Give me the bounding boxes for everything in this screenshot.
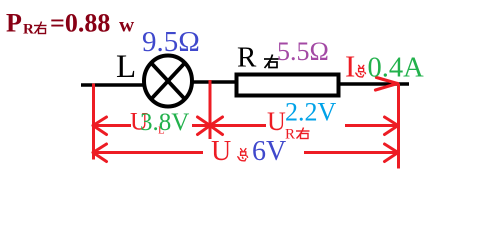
svg-text:R: R bbox=[237, 42, 257, 74]
row1 right arrowhead (points right at V3) bbox=[385, 117, 399, 135]
CJK 总 subscript of I label bbox=[356, 65, 366, 77]
row2 right arrowhead bbox=[385, 144, 399, 162]
CJK 右 subscript of U_R右 label bbox=[296, 128, 310, 139]
svg-text:P: P bbox=[6, 9, 22, 38]
svg-text:9.5Ω: 9.5Ω bbox=[142, 26, 200, 58]
svg-text:3.8V: 3.8V bbox=[140, 109, 189, 136]
svg-text:I: I bbox=[345, 49, 355, 84]
svg-text:L: L bbox=[116, 49, 136, 85]
row2 left arrowhead bbox=[93, 144, 107, 162]
svg-text:U: U bbox=[267, 107, 286, 136]
wire left segment bbox=[81, 83, 145, 86]
dimension vertical line V3 (right, x=398.5) bbox=[397, 84, 400, 169]
CJK 总 subscript of U总 label bbox=[238, 149, 248, 161]
row1 left arrowhead (points left at V1) bbox=[93, 117, 107, 135]
dimension row1 right line (U_R右 span) bbox=[210, 124, 398, 127]
svg-text:6V: 6V bbox=[252, 136, 286, 167]
wire middle segment (lamp to resistor) bbox=[191, 80, 237, 83]
svg-text:R: R bbox=[23, 22, 34, 38]
dimension row1 left line (U_L span) bbox=[94, 124, 211, 127]
svg-text:5.5Ω: 5.5Ω bbox=[277, 37, 329, 66]
svg-text:0.4A: 0.4A bbox=[368, 53, 425, 84]
svg-text:R: R bbox=[285, 127, 295, 143]
current direction arrow (red, on wire) bbox=[376, 78, 398, 91]
dimension row2 line (U总 span) bbox=[94, 151, 399, 154]
wire right segment bbox=[339, 82, 409, 85]
svg-text:2.2V: 2.2V bbox=[285, 98, 337, 127]
svg-text:w: w bbox=[119, 13, 135, 37]
dimension vertical line V2 (middle, x=210) bbox=[209, 80, 212, 139]
CJK 右 subscript of R label bbox=[264, 55, 279, 69]
svg-text:=0.88: =0.88 bbox=[50, 9, 110, 38]
label P_R右=0.88W (power of right resistor) bbox=[6, 9, 135, 38]
svg-text:U: U bbox=[211, 136, 231, 167]
lamp L (circle with X) bbox=[144, 56, 192, 107]
resistor R右 (rectangle) bbox=[237, 75, 339, 96]
dimension vertical line V1 (left, x=93) bbox=[92, 84, 95, 160]
row1 middle star arrowheads (at V2) bbox=[198, 117, 223, 135]
CJK 右 subscript of P label bbox=[34, 22, 47, 34]
